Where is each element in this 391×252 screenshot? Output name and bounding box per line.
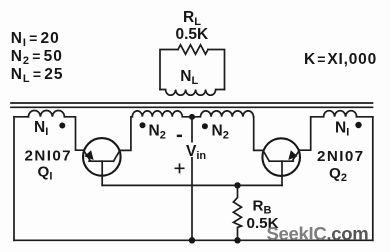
phase dot N2 left	[140, 122, 146, 128]
node center tap junction	[189, 114, 195, 120]
phase dot N1 left	[59, 123, 65, 129]
svg-text:2NI07: 2NI07	[317, 148, 365, 165]
phase dot N2 right	[202, 123, 208, 129]
wire load loop (left, right, top segments)	[160, 50, 225, 90]
resistor RL (zigzag in load loop top side)	[178, 45, 208, 54]
inductor NL winding	[160, 90, 225, 96]
node RB bottom junction	[234, 237, 240, 243]
node Vin bottom junction	[189, 237, 195, 243]
svg-text:K=XI,000: K=XI,000	[304, 51, 377, 68]
label minus sign	[177, 135, 182, 138]
inductor N1 left winding	[28, 111, 64, 117]
wire left rail	[13, 117, 15, 241]
wire N1-left to left rail	[14, 116, 28, 118]
transistor Q2	[262, 138, 300, 185]
wire bottom rail	[14, 239, 373, 241]
inductor N2 left winding	[132, 111, 192, 117]
wire N1-right to right rail	[357, 116, 373, 118]
wire Q1 emitter lead from N1	[64, 117, 83, 150]
svg-text:2NI07: 2NI07	[25, 148, 73, 165]
svg-text:0.5K: 0.5K	[176, 26, 210, 43]
inductor N2 right winding	[192, 111, 254, 117]
inductor N1 right winding	[324, 111, 357, 117]
wire Q2 collector lead to N2	[254, 117, 263, 151]
transistor Q1	[83, 138, 121, 185]
svg-text:SeekIC.com: SeekIC.com	[267, 223, 369, 244]
transformer core (double line)	[11, 103, 373, 107]
wire Q2 emitter lead from N1	[300, 117, 324, 150]
resistor RB	[233, 185, 241, 240]
wire right rail	[372, 117, 374, 241]
wire Vin center line	[191, 117, 193, 240]
wire base bus Q1 to Q2	[102, 184, 282, 186]
node RB top junction	[234, 182, 240, 188]
label Vin	[185, 143, 206, 163]
phase dot N1 right	[355, 122, 361, 128]
label plus sign	[175, 164, 183, 172]
wire Q1 collector lead to N2	[120, 117, 131, 151]
